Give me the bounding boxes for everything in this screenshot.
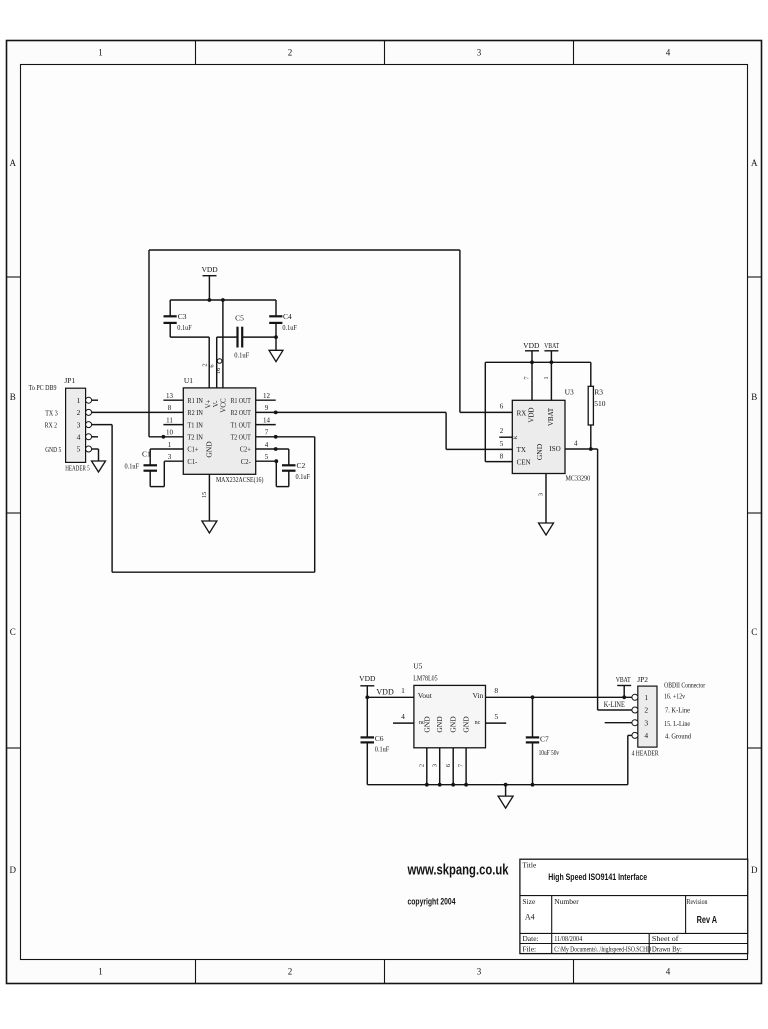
U5 pin5 stub xyxy=(486,712,507,723)
U5 pin4 stub xyxy=(393,712,414,723)
label RX 2 xyxy=(45,421,58,430)
svg-text:Size: Size xyxy=(522,897,536,906)
junction VBAT at pin1 wire xyxy=(622,695,626,699)
power symbol VDD (above U3) xyxy=(523,341,540,362)
junction VDD stem U3 xyxy=(530,360,534,364)
svg-text:1: 1 xyxy=(168,441,172,449)
svg-text:5: 5 xyxy=(494,712,498,721)
svg-text:8: 8 xyxy=(494,686,498,695)
svg-text:D: D xyxy=(751,865,758,875)
label TX 3 xyxy=(45,408,58,417)
wire JP2 pin3 stub xyxy=(605,722,632,724)
svg-text:TX 3: TX 3 xyxy=(45,408,58,417)
svg-text:2: 2 xyxy=(500,427,504,435)
svg-text:VCC: VCC xyxy=(220,398,228,413)
wire T1IN stub xyxy=(163,424,183,426)
wire VDD/VBAT rail above U3 xyxy=(485,361,591,363)
wire to U3 RX xyxy=(460,411,512,413)
wire JP1 pin3 segment xyxy=(92,424,113,426)
capacitor C7 xyxy=(526,695,560,786)
U1 right pin numbers xyxy=(263,392,271,461)
junction VDD column xyxy=(365,695,369,699)
svg-text:6: 6 xyxy=(500,403,504,411)
wire U3 VBAT pin1 lead xyxy=(543,362,551,400)
svg-text:Vout: Vout xyxy=(418,691,433,700)
power symbol VBAT (at JP2) xyxy=(616,675,632,698)
svg-text:2: 2 xyxy=(418,764,425,767)
capacitor C2 xyxy=(256,447,310,487)
svg-text:R1 IN: R1 IN xyxy=(187,397,203,405)
pin number 16 (VCC) xyxy=(215,367,222,374)
svg-text:JP1: JP1 xyxy=(64,376,75,385)
net label VDD on Vout wire xyxy=(376,688,394,697)
svg-text:1: 1 xyxy=(77,396,81,405)
wire U3 VDD pin7 lead xyxy=(524,362,532,400)
U3 ISO pin4 wire xyxy=(565,439,598,449)
svg-text:VBAT: VBAT xyxy=(544,341,559,350)
capacitor C5 xyxy=(234,314,249,360)
svg-text:C1+: C1+ xyxy=(187,446,198,454)
svg-text:T2 IN: T2 IN xyxy=(187,434,203,442)
net label K-LINE xyxy=(604,700,625,709)
svg-text:C5: C5 xyxy=(235,314,244,323)
svg-text:5: 5 xyxy=(77,445,81,454)
wire ground rail below U5 xyxy=(367,784,628,786)
svg-text:K-LINE: K-LINE xyxy=(604,700,625,709)
wire JP2 pin4 to ground rail xyxy=(628,735,632,784)
wire loop to T2IN xyxy=(149,436,183,438)
svg-text:12: 12 xyxy=(263,392,271,400)
svg-text:VDD: VDD xyxy=(359,674,376,683)
svg-text:0.1uF: 0.1uF xyxy=(296,473,311,481)
power symbol VBAT (above U3) xyxy=(544,341,559,362)
wire rail2 left segment xyxy=(170,336,209,338)
junction VDD stem xyxy=(208,298,212,302)
wire K-line to JP2 pin2 xyxy=(598,709,632,711)
svg-text:4. Ground: 4. Ground xyxy=(665,733,691,741)
svg-text:C2: C2 xyxy=(297,461,306,470)
svg-text:A: A xyxy=(751,158,758,168)
svg-text:MC33290: MC33290 xyxy=(566,474,591,483)
border column tick marks xyxy=(196,41,574,984)
svg-text:RX: RX xyxy=(517,409,527,417)
wire U5 Vout to VDD/C6 xyxy=(367,696,414,698)
svg-text:C1-: C1- xyxy=(187,458,198,466)
svg-text:5: 5 xyxy=(500,440,504,448)
svg-text:8: 8 xyxy=(168,404,172,412)
svg-text:GND: GND xyxy=(435,716,444,733)
wire R1IN stub xyxy=(163,399,183,401)
svg-text:3: 3 xyxy=(644,718,648,727)
border row tick marks xyxy=(7,277,762,748)
svg-text:LM78L05: LM78L05 xyxy=(413,673,438,682)
wire loop top (U1 T2IN to U3 RX) xyxy=(149,249,460,251)
svg-text:U5: U5 xyxy=(413,662,422,671)
ground at JP1 pin5 xyxy=(92,461,106,472)
svg-text:10: 10 xyxy=(166,429,174,437)
wire loop right vertical xyxy=(459,250,461,412)
svg-text:4: 4 xyxy=(666,967,671,977)
svg-text:TX: TX xyxy=(517,446,526,454)
wire R2OUT to U3 TX xyxy=(256,412,513,449)
svg-text:To PC DB9: To PC DB9 xyxy=(29,383,57,392)
copyright text xyxy=(408,897,456,907)
svg-text:2: 2 xyxy=(77,408,81,417)
junction R2OUT xyxy=(274,411,278,415)
capacitor C3 xyxy=(164,300,192,337)
svg-text:4: 4 xyxy=(666,48,671,58)
svg-text:C7: C7 xyxy=(540,734,549,743)
svg-text:2: 2 xyxy=(288,967,293,977)
svg-text:RX 2: RX 2 xyxy=(45,421,58,430)
svg-text:Vin: Vin xyxy=(472,691,483,700)
svg-text:R2 OUT: R2 OUT xyxy=(231,409,252,417)
svg-text:OBDII Connector: OBDII Connector xyxy=(664,682,706,690)
svg-text:C: C xyxy=(751,627,757,637)
wire lower loop right vertical to T2OUT xyxy=(314,437,316,572)
OBDII connector annotation xyxy=(664,682,706,741)
svg-text:GND: GND xyxy=(462,716,471,733)
svg-text:4: 4 xyxy=(77,433,81,442)
svg-text:Revision: Revision xyxy=(687,897,708,906)
capacitor C1 xyxy=(125,449,184,487)
svg-text:VBAT: VBAT xyxy=(616,675,631,684)
label GND 5 xyxy=(45,445,61,454)
svg-text:4: 4 xyxy=(265,441,269,449)
svg-text:C2+: C2+ xyxy=(240,446,251,454)
svg-text:1: 1 xyxy=(98,48,103,58)
svg-text:CEN: CEN xyxy=(517,458,531,466)
svg-text:3: 3 xyxy=(431,764,438,767)
svg-text:nc: nc xyxy=(475,720,481,726)
wire K-line vertical xyxy=(597,449,599,710)
svg-text:copyright 2004: copyright 2004 xyxy=(408,897,456,907)
svg-text:16. +12v: 16. +12v xyxy=(664,693,685,701)
wire VCC pin16 lead xyxy=(222,300,224,388)
svg-text:JP2: JP2 xyxy=(637,675,648,684)
IC U1 MAX232ACSE xyxy=(183,376,264,484)
svg-text:7: 7 xyxy=(265,429,269,437)
svg-text:510: 510 xyxy=(594,399,606,408)
svg-text:GND: GND xyxy=(449,716,458,733)
svg-text:R3: R3 xyxy=(594,388,603,397)
svg-text:K: K xyxy=(513,435,519,439)
svg-text:GND 5: GND 5 xyxy=(45,445,61,454)
svg-text:0.1uF: 0.1uF xyxy=(375,745,390,753)
svg-text:C1: C1 xyxy=(142,449,151,458)
wire JP1 pin1 stub xyxy=(92,399,98,401)
junction T2OUT xyxy=(274,435,278,439)
svg-text:1: 1 xyxy=(98,967,103,977)
svg-text:HEADER 5: HEADER 5 xyxy=(65,463,90,472)
svg-text:B: B xyxy=(10,392,16,402)
svg-text:2: 2 xyxy=(644,706,648,715)
wire JP1 pin5 to ground xyxy=(92,449,99,461)
pin number 2 (V+) xyxy=(201,363,208,366)
ground at U5 rail xyxy=(498,783,513,808)
connector JP1 (HEADER 5) xyxy=(64,376,91,472)
svg-text:Drawn By:: Drawn By: xyxy=(652,944,682,953)
junction T2IN stub end xyxy=(162,435,166,439)
svg-text:7. K-Line: 7. K-Line xyxy=(665,707,690,715)
IC U3 MC33290 xyxy=(512,388,590,483)
wire R1OUT stub xyxy=(256,399,276,401)
svg-text:4 HEADER: 4 HEADER xyxy=(632,749,659,758)
power symbol VDD (at U5) xyxy=(359,674,376,697)
connector JP2 (OBDII header) xyxy=(632,675,659,758)
svg-text:1: 1 xyxy=(401,686,405,695)
svg-text:3: 3 xyxy=(477,967,482,977)
wire VDD rail xyxy=(170,299,276,301)
pin number 6 (V-) xyxy=(209,359,222,368)
svg-text:T2 OUT: T2 OUT xyxy=(231,434,252,442)
junction VCC drop xyxy=(221,298,225,302)
svg-text:14: 14 xyxy=(263,416,271,424)
ground at U1 pin15 xyxy=(201,474,217,533)
svg-text:www.skpang.co.uk: www.skpang.co.uk xyxy=(407,862,509,879)
wire CEN feed from rail xyxy=(485,362,512,461)
svg-text:11: 11 xyxy=(166,416,173,424)
svg-text:VDD: VDD xyxy=(523,341,540,350)
title block xyxy=(520,859,748,953)
capacitor C6 xyxy=(361,697,390,784)
svg-text:D: D xyxy=(9,865,16,875)
wire V+ pin2 lead xyxy=(208,337,210,388)
svg-text:4: 4 xyxy=(401,712,405,721)
svg-text:4: 4 xyxy=(574,439,578,447)
svg-text:4: 4 xyxy=(644,731,648,740)
svg-text:T1 IN: T1 IN xyxy=(187,421,203,429)
svg-text:A4: A4 xyxy=(525,912,535,921)
U1 left pin numbers xyxy=(166,392,174,461)
svg-text:10uF 50v: 10uF 50v xyxy=(539,749,560,757)
U5 bottom ground pins xyxy=(418,748,468,787)
svg-text:VDD: VDD xyxy=(201,265,218,274)
svg-text:0.1uF: 0.1uF xyxy=(234,352,249,360)
title block texts xyxy=(522,860,717,953)
U3 pin 2 stub xyxy=(499,427,512,437)
svg-text:MAX232ACSE(16): MAX232ACSE(16) xyxy=(216,475,264,484)
svg-text:3: 3 xyxy=(477,48,482,58)
power symbol VDD (above U1) xyxy=(201,265,218,300)
svg-text:GND: GND xyxy=(205,441,214,458)
svg-text:0.1uF: 0.1uF xyxy=(177,324,192,332)
svg-text:T1 OUT: T1 OUT xyxy=(231,421,252,429)
resistor R3 510 xyxy=(588,362,606,449)
svg-text:U3: U3 xyxy=(565,388,574,397)
svg-text:VDD: VDD xyxy=(528,407,536,422)
IC U5 LM78L05 xyxy=(413,662,485,748)
svg-text:U1: U1 xyxy=(184,376,193,385)
wire rail2 right segment xyxy=(242,336,276,338)
svg-text:0.1uF: 0.1uF xyxy=(125,463,140,471)
svg-text:2: 2 xyxy=(288,48,293,58)
svg-text:Sheet of: Sheet of xyxy=(652,934,679,943)
website text xyxy=(407,862,509,879)
svg-text:GND: GND xyxy=(422,716,431,733)
svg-text:9: 9 xyxy=(265,404,269,412)
wire rail2 mid segment xyxy=(217,336,238,338)
capacitor C4 xyxy=(269,300,297,337)
svg-text:8: 8 xyxy=(500,452,504,460)
svg-text:C6: C6 xyxy=(375,734,384,743)
wire JP1 pin4 stub xyxy=(92,436,98,438)
svg-text:1: 1 xyxy=(543,376,550,379)
svg-text:C: C xyxy=(10,627,16,637)
svg-text:0.1uF: 0.1uF xyxy=(282,324,297,332)
svg-text:C2-: C2- xyxy=(241,458,252,466)
svg-text:R2 IN: R2 IN xyxy=(187,409,203,417)
svg-text:Title: Title xyxy=(522,860,537,869)
svg-text:3: 3 xyxy=(538,493,545,496)
ground below C4 xyxy=(269,337,283,362)
wire T2OUT stub xyxy=(256,436,315,438)
U3 pin number 6 xyxy=(500,403,504,411)
svg-text:15: 15 xyxy=(201,492,208,499)
svg-text:C3: C3 xyxy=(178,312,187,321)
wire V- pin6 lead xyxy=(216,337,218,388)
U3 pin number 8 xyxy=(500,452,504,460)
U3 pin number 5 xyxy=(500,440,504,448)
svg-text:High Speed ISO9141 Interface: High Speed ISO9141 Interface xyxy=(548,872,647,883)
svg-text:11/08/2004: 11/08/2004 xyxy=(554,934,582,943)
U5 pin number 1 xyxy=(401,686,405,695)
svg-text:1: 1 xyxy=(644,693,648,702)
junction VBAT stem U3 xyxy=(550,360,554,364)
svg-text:R1 OUT: R1 OUT xyxy=(231,397,252,405)
svg-text:2: 2 xyxy=(201,363,208,366)
svg-text:VDD: VDD xyxy=(376,688,394,697)
svg-text:File:: File: xyxy=(522,944,536,953)
svg-text:VBAT: VBAT xyxy=(547,407,555,426)
svg-text:B: B xyxy=(751,392,757,402)
svg-text:15. L-Line: 15. L-Line xyxy=(664,720,690,728)
svg-text:Number: Number xyxy=(554,897,579,906)
svg-text:C:\My Documents\..\highspeed-I: C:\My Documents\..\highspeed-ISO.SCHD xyxy=(554,944,651,953)
svg-text:C4: C4 xyxy=(283,312,292,321)
wire loop left vertical xyxy=(148,250,150,437)
wire JP1 pin2 to U1 R2IN xyxy=(92,411,184,413)
svg-text:A: A xyxy=(9,158,16,168)
U5 pin number 8 xyxy=(494,686,498,695)
junction C4 bottom xyxy=(274,335,278,339)
svg-text:16: 16 xyxy=(215,367,222,374)
ground at U3 pin3 xyxy=(538,474,554,536)
label To PC DB9 xyxy=(29,383,57,392)
svg-text:13: 13 xyxy=(166,392,174,400)
svg-text:Rev A: Rev A xyxy=(697,914,718,926)
svg-text:5: 5 xyxy=(265,453,269,461)
wire U5 Vin to JP2 pin1 xyxy=(486,696,632,698)
wire lower loop bottom xyxy=(112,571,315,573)
svg-text:3: 3 xyxy=(77,420,81,429)
wire JP1 pin3 down xyxy=(111,425,113,573)
svg-text:GND: GND xyxy=(535,443,544,460)
svg-text:3: 3 xyxy=(168,453,172,461)
svg-text:ISO: ISO xyxy=(549,445,560,453)
wire T1OUT stub xyxy=(256,424,276,426)
svg-text:Date:: Date: xyxy=(522,934,538,943)
junction R3 bottom xyxy=(589,447,593,451)
